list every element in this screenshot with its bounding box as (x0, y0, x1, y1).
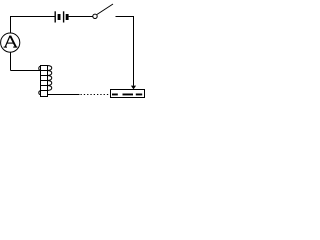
coil L1 right arc 1 (48, 66, 52, 71)
slider arrow (131, 86, 136, 90)
coil L1 winding line 1 (41, 70, 48, 72)
coil L1 right arc 5 (48, 86, 52, 91)
rheostat R1 resistive element dash 1 (112, 94, 118, 96)
wire left vertical lower (10, 52, 12, 71)
rheostat R1 body (111, 90, 145, 98)
coil L1 right arc 2 (48, 71, 52, 76)
coil L1 right arc 4 (48, 81, 52, 86)
wire top-left horizontal (10, 16, 55, 18)
wire top-right horizontal (116, 16, 135, 18)
coil L1 right arc 3 (48, 76, 52, 81)
switch S1 pivot circle (93, 14, 97, 18)
wire battery to switch (69, 16, 93, 18)
wire bottom-left horizontal (11, 70, 41, 72)
coil L1 core (41, 66, 48, 97)
battery B1 long plate 2 (63, 11, 65, 22)
coil L1 left bottom bump (39, 91, 41, 95)
rheostat R1 resistive element dash 2 (123, 94, 134, 96)
coil L1 left top bump (39, 66, 41, 70)
ammeter A1 (1, 33, 20, 52)
wire right vertical (133, 17, 135, 86)
coil L1 winding line 2 (41, 75, 48, 77)
wire left vertical upper (10, 17, 12, 34)
wire coil to rheostat solid part (48, 94, 80, 96)
coil L1 winding line 4 (41, 85, 48, 87)
rheostat R1 resistive element dash 3 (136, 94, 142, 96)
switch S1 blade (97, 4, 113, 15)
coil L1 winding line 5 (41, 90, 48, 92)
coil L1 winding line 3 (41, 80, 48, 82)
battery B1 short thick plate 2 (66, 14, 69, 20)
wire coil to rheostat dotted part (81, 94, 111, 96)
battery B1 long plate 1 (54, 11, 56, 22)
battery B1 short thick plate 1 (58, 14, 61, 20)
